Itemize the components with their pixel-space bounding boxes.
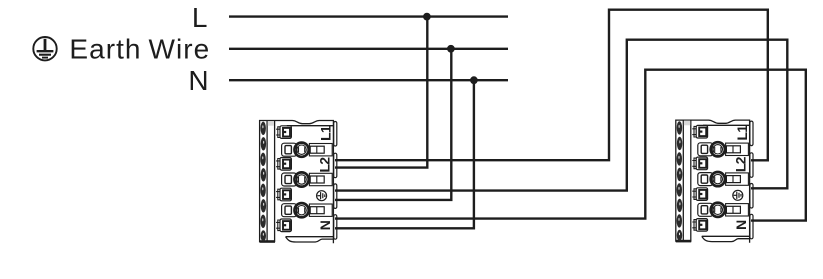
svg-text:L: L <box>192 2 208 33</box>
terminal block TB1 (left) <box>260 121 337 244</box>
wire left block earth to right block earth <box>335 40 787 191</box>
earth (PE) symbol <box>33 37 56 60</box>
terminal block TB2 (right) <box>676 120 753 243</box>
svg-text:Earth Wire: Earth Wire <box>69 33 210 64</box>
wire L supply line <box>229 15 508 17</box>
junction node on Earth line <box>447 45 455 53</box>
junction node on N line <box>470 76 478 84</box>
junction node on L line <box>423 13 431 21</box>
wire L branch to left block L2 <box>335 17 427 168</box>
svg-text:N: N <box>188 65 208 96</box>
wire left block N to right block N <box>335 70 806 221</box>
wire N supply line <box>229 79 508 81</box>
wire left block L2 to right block L2 <box>335 10 768 161</box>
wire Earth supply line <box>229 48 508 50</box>
wire Earth branch to left block earth <box>335 49 451 200</box>
wire N branch to left block N <box>335 80 474 228</box>
